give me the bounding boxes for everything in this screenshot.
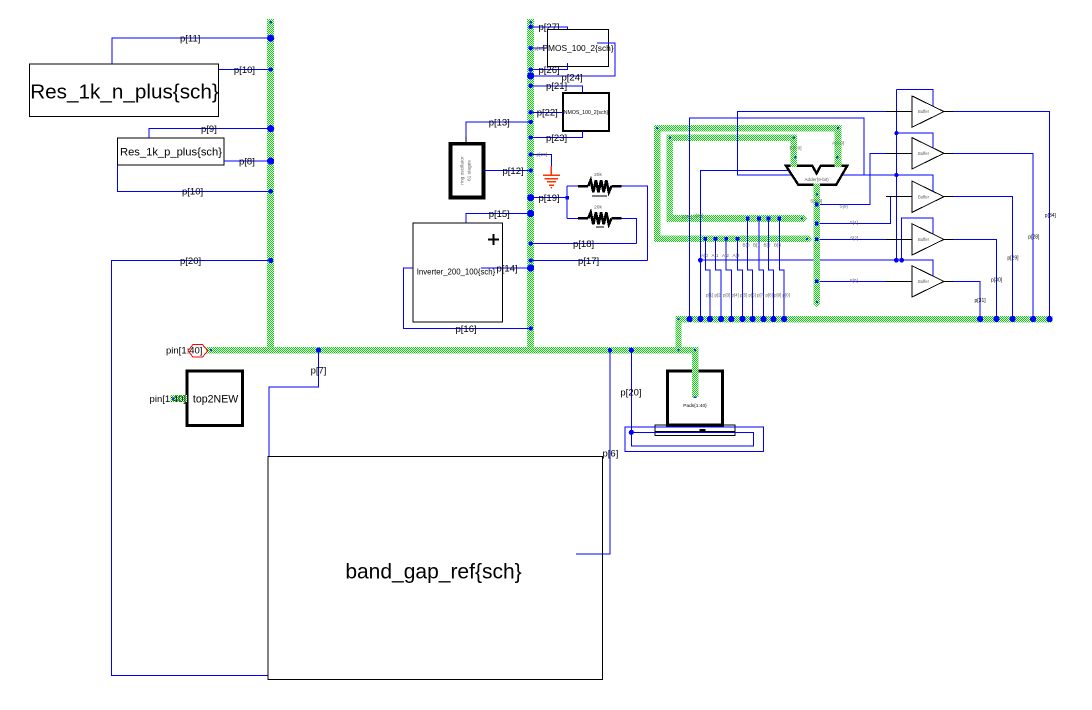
bus pin V2 top (529, 21, 532, 24)
junction p[25] (529, 46, 533, 50)
junction p[6] (608, 348, 612, 352)
junction p[20] right bottom (629, 430, 634, 435)
bus B[8:0] ring top (666, 134, 797, 141)
svg-text:Pads{1:40}: Pads{1:40} (683, 403, 707, 409)
svg-text:61 stages: 61 stages (467, 160, 473, 181)
junction bottom bus B3 (781, 316, 787, 322)
junction p[22] (529, 110, 533, 114)
svg-text:NMOS_100_2{sch}: NMOS_100_2{sch} (564, 110, 609, 116)
pad frame under box (655, 425, 735, 435)
svg-text:p[1]: p[1] (706, 293, 713, 298)
pad ring blue outer (625, 427, 764, 451)
wire p[12] (484, 169, 531, 171)
junction p[11] (267, 35, 274, 42)
resistor R2 20k (578, 212, 621, 227)
svg-text:p[26]: p[26] (539, 65, 560, 76)
instance box Pads 1:40 (668, 371, 723, 425)
junction B[1] top (757, 217, 761, 221)
junction buffer4 loop at y260 (899, 258, 904, 263)
svg-text:B[8:0]: B[8:0] (790, 146, 802, 151)
bus end diamond S (813, 300, 820, 307)
wire p[15] (466, 214, 531, 224)
svg-text:B[0: B[0 (743, 242, 750, 247)
junction p[27] (529, 25, 533, 29)
wire A[2] tap (726, 239, 731, 319)
wire A[3] tap (738, 239, 743, 319)
wire buffer2 output p[28] (944, 153, 1033, 319)
junction p[8] (267, 157, 274, 164)
junction p[16] (529, 326, 533, 330)
bus B[8:0] ring bottom (666, 215, 804, 222)
svg-text:p[31]: p[31] (975, 298, 987, 304)
junction bottom bus A1 (718, 316, 724, 322)
wire p[14] (481, 267, 531, 269)
junction bottom bus B1 (760, 316, 766, 322)
buffer U3 (912, 181, 944, 212)
svg-text:Buffer: Buffer (918, 279, 930, 284)
bus pin top2NEW stub (172, 397, 175, 400)
wire p[6] (576, 350, 610, 554)
wire A[1] tap (716, 239, 722, 319)
wire buffer loop chain vertical (895, 89, 897, 260)
buffer U2 (912, 138, 944, 169)
wire B[1] tap (759, 219, 764, 320)
svg-text:p[4]: p[4] (732, 293, 739, 298)
wire net via x689 to bottom bus (690, 118, 865, 319)
instance box band_gap_ref (268, 456, 603, 679)
bus connector vertical right (675, 316, 681, 354)
svg-text:Inverter_200_100{sch}: Inverter_200_100{sch} (417, 268, 496, 277)
wire buffer1 output p[34] (944, 112, 1050, 319)
svg-text:p[34]: p[34] (1045, 213, 1057, 219)
wire p[11] (112, 38, 271, 64)
junction p[19] (527, 194, 534, 201)
svg-text:A[1: A[1 (712, 253, 719, 258)
wire S[4] to buffer3 (817, 197, 912, 224)
pad ring blue inner (631, 432, 753, 446)
junction bottom bus A3 (739, 316, 745, 322)
wire p[25] (531, 47, 548, 49)
svg-text:p[35]: p[35] (682, 214, 692, 219)
wire p[19] (531, 197, 568, 199)
wire A[0] tap (705, 239, 710, 319)
junction p[7] (316, 348, 321, 353)
svg-text:p[20]: p[20] (620, 387, 641, 398)
svg-text:Buffer: Buffer (918, 237, 930, 242)
wire B[2] tap (769, 219, 774, 320)
svg-text:B[1: B[1 (753, 242, 760, 247)
wire p[24] (531, 43, 615, 76)
junction p[21] (529, 84, 533, 88)
junction bottom bus B0 (750, 316, 756, 322)
bus pin V1 top (269, 21, 272, 24)
svg-text:S[0]: S[0] (850, 278, 858, 283)
wire buffer4 output p[30] (944, 239, 997, 319)
buffer U4 (912, 224, 944, 255)
junction p[26] (529, 67, 533, 71)
svg-text:p[20]: p[20] (180, 256, 201, 267)
svg-text:p[11]: p[11] (180, 34, 200, 45)
junction bottom bus p[29] (1010, 316, 1016, 322)
svg-text:S[4]: S[4] (850, 220, 858, 225)
bus stub pin[1:40] at top2NEW (170, 395, 187, 402)
svg-text:p[23]: p[23] (546, 133, 567, 144)
svg-text:p[16]: p[16] (456, 324, 477, 335)
plus marker (488, 234, 499, 245)
junction p[24] (527, 72, 534, 79)
wire R1 right (622, 186, 648, 260)
bus V1 (left vertical green bus) (267, 19, 274, 354)
junction S[0] tap (815, 280, 819, 284)
wire R2 right (622, 218, 637, 243)
instance box Res_1k_n_plus (29, 64, 218, 117)
junction p[9] (267, 125, 274, 132)
junction bottom bus B2 (770, 316, 776, 322)
svg-text:p[10]: p[10] (234, 65, 255, 76)
svg-text:ring oscillator: ring oscillator (460, 156, 466, 185)
junction bottom bus p[30] (993, 316, 999, 322)
svg-text:A[2: A[2 (722, 253, 729, 258)
wire p[27] (531, 27, 568, 32)
svg-text:p[21]: p[21] (546, 81, 567, 92)
junction p[20] middle (529, 152, 533, 156)
wire p[23] (531, 131, 583, 138)
svg-text:p[8]: p[8] (239, 156, 255, 167)
wire buffer3 output p[29] (944, 197, 1013, 319)
junction bottom bus p[28] (1030, 316, 1036, 322)
wire S[0] to buffer5 (817, 280, 912, 282)
junction bottom bus x700 (697, 316, 703, 322)
junction S[2] tap (815, 238, 819, 242)
svg-text:A[0: A[0 (701, 253, 708, 258)
junction bottom bus A2 (728, 316, 734, 322)
svg-text:S[2]: S[2] (850, 235, 858, 240)
wire buffer4 top loop (902, 218, 934, 260)
bus A stub into adder (835, 125, 842, 167)
junction p[12] (529, 168, 533, 172)
junction B[3] top (778, 217, 782, 221)
wire buffer1 input from adder (738, 112, 912, 175)
svg-text:B[3: B[3 (774, 242, 781, 247)
junction p[20] right top (629, 348, 634, 353)
junction A[3] top (736, 237, 740, 241)
wire p[10] (218, 69, 270, 71)
junction bottom bus x689 (687, 316, 693, 322)
svg-text:p[9]: p[9] (774, 293, 781, 298)
junction A[0] top (704, 237, 708, 241)
wire buffer5 top loop long from adder region (700, 260, 933, 276)
svg-text:p[28]: p[28] (1028, 234, 1040, 240)
bus V2 (middle vertical green bus) (527, 19, 534, 354)
svg-text:p[30]: p[30] (991, 277, 1003, 283)
svg-text:S[9:0]: S[9:0] (810, 199, 822, 204)
svg-text:p[7]: p[7] (311, 366, 327, 377)
wire S[9] to buffer2 (817, 153, 912, 204)
svg-text:p[36]: p[36] (694, 213, 704, 218)
junction B[2] top (767, 217, 771, 221)
wire S[2] to buffer4 (817, 238, 912, 240)
junction bottom bus p[34] (1046, 316, 1052, 322)
bus main horizontal pin[1:40] (207, 347, 698, 354)
junction p[10] lower (269, 189, 273, 193)
svg-text:p[6]: p[6] (603, 449, 619, 460)
svg-text:p[19]: p[19] (539, 193, 560, 204)
svg-text:B[2: B[2 (764, 242, 771, 247)
svg-text:PMOS_100_2{sch}: PMOS_100_2{sch} (542, 43, 613, 53)
wire p[18] (531, 243, 637, 245)
svg-text:p[17]: p[17] (578, 256, 599, 267)
junction S[9] tap (815, 203, 819, 207)
svg-text:p[0]: p[0] (783, 293, 790, 298)
svg-text:Res_1k_n_plus{sch}: Res_1k_n_plus{sch} (30, 80, 219, 103)
wire p[8] (224, 160, 271, 162)
svg-text:p[25]: p[25] (535, 46, 546, 52)
wire p[7] (269, 350, 319, 456)
wire adder right output to buffer3 loop (836, 175, 933, 192)
instance box Inverter_200_100 (413, 223, 502, 322)
junction p[20] left (268, 258, 273, 263)
wire buffer1 top loop (896, 89, 933, 106)
svg-text:pin[1:40]: pin[1:40] (166, 346, 202, 357)
junction A[2] top (724, 237, 728, 241)
instance box ring oscillator 61 stages (451, 144, 484, 198)
bus pin main left (210, 349, 212, 351)
svg-text:Buffer: Buffer (918, 194, 930, 199)
svg-text:p[14]: p[14] (497, 263, 518, 274)
buffer U1 (912, 96, 944, 127)
junction p[18] (529, 241, 533, 245)
instance box top2NEW (187, 371, 242, 426)
bus bottom horizontal (675, 316, 1052, 323)
svg-text:Buffer: Buffer (918, 109, 930, 114)
buffer U5 (912, 266, 944, 297)
svg-text:A[8:0]: A[8:0] (832, 141, 844, 146)
svg-text:p[18]: p[18] (573, 239, 594, 250)
junction p[23] (529, 135, 533, 139)
svg-text:p[3]: p[3] (723, 293, 730, 298)
junction p[15] (527, 210, 534, 217)
svg-text:p[12]: p[12] (503, 166, 524, 177)
wire p[17] (531, 260, 648, 262)
junction loop chain at y260 (894, 258, 899, 263)
junction loop chain at buffer3 (894, 173, 898, 177)
svg-text:p[6]: p[6] (749, 293, 756, 298)
svg-text:p[22]: p[22] (537, 108, 558, 119)
wire p[26] (531, 63, 568, 70)
wire p[13] (466, 122, 531, 144)
junction bottom bus A0 (707, 316, 713, 322)
svg-text:20k: 20k (594, 204, 602, 210)
svg-text:p[5]: p[5] (740, 293, 747, 298)
ground symbol (543, 166, 560, 185)
svg-text:Buffer: Buffer (918, 151, 930, 156)
wire p[16] (404, 268, 531, 328)
junction resistor tee (565, 196, 569, 200)
wire p[20] middle (to ground) (531, 154, 552, 165)
wire p[21] (531, 86, 583, 93)
svg-text:Adder(9-bit): Adder(9-bit) (804, 177, 829, 182)
wire net adder carry left (700, 171, 795, 320)
bus end diamond B ring (800, 215, 807, 222)
instance box Res_1k_p_plus (117, 138, 224, 165)
bus connector into Pads (692, 347, 698, 397)
junction loop chain at buffer2 (894, 131, 898, 135)
svg-text:p[9]: p[9] (201, 124, 217, 135)
wire buffer2 top loop (896, 133, 933, 148)
junction S[4] tap (815, 222, 819, 226)
wire B[3] tap (779, 219, 784, 320)
svg-text:Res_1k_p_plus{sch}: Res_1k_p_plus{sch} (120, 147, 222, 159)
junction p[13] (529, 120, 533, 124)
bus B[8:0] ring left (666, 134, 673, 221)
svg-text:p[8]: p[8] (766, 293, 773, 298)
svg-text:p[13]: p[13] (489, 117, 510, 128)
svg-text:S[9]: S[9] (840, 204, 848, 209)
svg-text:band_gap_ref{sch}: band_gap_ref{sch} (345, 560, 521, 583)
junction B[0] top (746, 217, 750, 221)
wire p[20] left long (111, 260, 270, 675)
bus A[8:0] ring top (654, 125, 841, 132)
svg-text:top2NEW: top2NEW (193, 393, 238, 405)
wire buffer5 output p[31] (944, 281, 980, 319)
bus B stub into adder (791, 134, 798, 167)
svg-text:p[15]: p[15] (489, 209, 510, 220)
junction y260 at x700 (698, 258, 703, 263)
svg-text:A[3: A[3 (733, 253, 740, 258)
svg-text:p[7]: p[7] (757, 293, 764, 298)
bus A[8:0] ring bottom (654, 236, 809, 243)
bus A[8:0] ring left (654, 125, 661, 242)
svg-text:p[2]: p[2] (715, 293, 722, 298)
wire p[10] lower (117, 165, 270, 191)
junction bottom bus p[31] (977, 316, 983, 322)
bus pin dots right section (656, 127, 658, 129)
wire p[9] (149, 129, 271, 138)
adder Adder(9-bit) (786, 166, 847, 185)
bus end diamond A ring (806, 235, 813, 242)
resistor R1 20k (578, 180, 621, 196)
junction A[1] top (714, 237, 718, 241)
wire B[0] tap (748, 219, 753, 320)
svg-text:pin[1:40]: pin[1:40] (150, 394, 186, 405)
junction p[14] (527, 264, 534, 271)
instance box NMOS_100_2 (563, 93, 609, 131)
wire p[22] (531, 111, 563, 113)
wire p[20] right (to pad ring) (630, 350, 632, 432)
instance box PMOS_100_2 (547, 29, 608, 66)
bus pin pads stub (694, 397, 697, 399)
svg-text:p[20]: p[20] (537, 152, 548, 158)
bus S[9:0] from adder (814, 184, 821, 304)
svg-text:p[29]: p[29] (1007, 255, 1019, 261)
junction p[10] (269, 67, 273, 71)
svg-text:p[10]: p[10] (182, 187, 203, 198)
svg-text:20k: 20k (594, 172, 602, 178)
junction p[17] (529, 258, 533, 262)
